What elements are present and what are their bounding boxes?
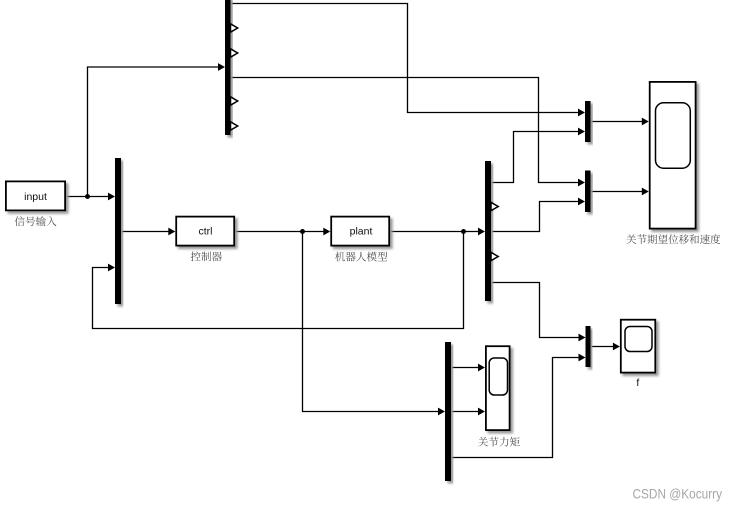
- arrowhead into M1 in2: [108, 264, 115, 272]
- wire D2 out5 to mux M4 in1: [491, 283, 583, 338]
- arrowhead into scope1 in2: [642, 188, 649, 196]
- wire D1 out1 to mux M2 in1: [231, 4, 583, 113]
- label 控制器: [191, 252, 222, 262]
- wire M2 out to scope1 in1: [591, 121, 646, 123]
- arrowhead into M3 in1: [578, 179, 585, 187]
- demux D1 unconnected port 3: [231, 49, 238, 57]
- svg-text:plant: plant: [350, 226, 373, 238]
- demux D1 (top): [225, 0, 231, 135]
- demux D1 unconnected port 6: [231, 122, 238, 130]
- wire D3 out3 to mux M4 in2: [451, 358, 583, 458]
- demux D3 (torque): [445, 342, 451, 481]
- mux M3: [585, 171, 591, 213]
- wire D3 out2 to scope2 in2: [451, 411, 481, 413]
- wire D2 out3 to mux M3 in2: [491, 202, 582, 232]
- wire input to mux M1: [66, 196, 113, 198]
- demux D1 unconnected port 2: [231, 24, 238, 32]
- wire D1 out4 to mux M3 in1: [231, 78, 583, 183]
- wire M3 out to scope1 in2: [591, 191, 646, 193]
- block plant (robot model): [331, 217, 389, 246]
- arrowhead into M2 in2: [578, 128, 585, 136]
- label 关节力矩: [478, 437, 520, 447]
- arrowhead into scope3: [613, 343, 620, 351]
- demux D2 unconnected port 2: [491, 202, 498, 210]
- demux D2 (plant output): [485, 161, 491, 301]
- junction node A: [85, 194, 90, 199]
- arrowhead into plant: [323, 228, 330, 236]
- wire plant out to demux D2: [390, 231, 482, 233]
- svg-text:ctrl: ctrl: [199, 226, 213, 238]
- scope2 (joint torque): [486, 346, 510, 430]
- label 信号输入: [15, 216, 57, 226]
- arrowhead into scope1 in1: [642, 118, 649, 126]
- arrowhead into M3 in2: [578, 198, 585, 206]
- wire D2 out1 to mux M2 in2: [491, 132, 582, 183]
- arrowhead into M2 in1: [578, 109, 585, 117]
- wire node A up to demux D1: [88, 67, 223, 197]
- wire D3 out1 to scope2 in1: [451, 367, 481, 369]
- wire M4 out to scope3: [591, 346, 617, 348]
- block ctrl (controller): [176, 217, 234, 246]
- mux M1 (left): [115, 158, 121, 304]
- svg-text:CSDN @Kocurry: CSDN @Kocurry: [633, 486, 723, 502]
- svg-text:f: f: [636, 377, 639, 389]
- block input: [6, 181, 65, 210]
- junction node C: [461, 229, 466, 234]
- demux D2 unconnected port 4: [491, 252, 498, 260]
- demux D1 unconnected port 5: [231, 97, 238, 105]
- scope1 (joint desired position and velocity): [650, 82, 696, 229]
- mux M4: [586, 326, 591, 367]
- wire node B down to demux D3: [303, 232, 443, 412]
- wire feedback node C to mux M1 in2: [93, 232, 464, 329]
- label 关节期望位移和速度: [626, 234, 720, 244]
- arrowhead into M1 in1: [108, 193, 115, 201]
- label 机器人模型: [335, 252, 387, 262]
- mux M2: [585, 101, 591, 142]
- arrowhead into D3: [438, 408, 445, 416]
- wire ctrl out to plant: [235, 231, 327, 233]
- arrowhead into scope2 in1: [478, 364, 485, 372]
- arrowhead into scope2 in2: [478, 408, 485, 416]
- arrowhead into M4 in2: [579, 354, 586, 362]
- arrowhead into D2: [478, 228, 485, 236]
- arrowhead into M4 in1: [579, 334, 586, 342]
- scope3 (f): [621, 320, 656, 373]
- junction node B: [300, 229, 305, 234]
- svg-text:input: input: [24, 191, 47, 203]
- wire M1 out to ctrl: [121, 231, 172, 233]
- arrowhead into ctrl: [168, 228, 175, 236]
- arrowhead into D1: [218, 63, 225, 71]
